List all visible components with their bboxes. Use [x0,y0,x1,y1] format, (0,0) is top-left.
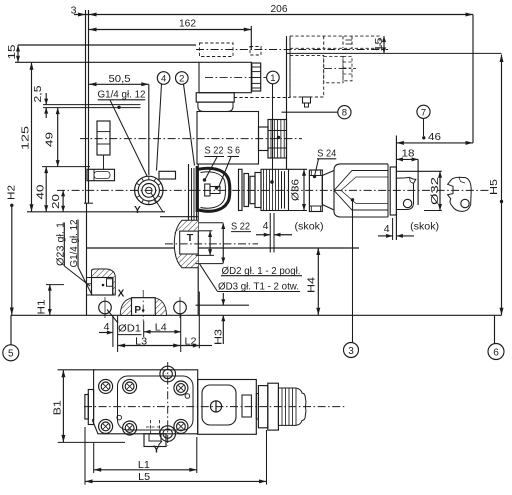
svg-text:L3: L3 [135,335,147,347]
bolt F [174,419,188,433]
depth dimension inner [208,231,212,255]
svg-text:P: P [134,305,141,316]
adjust screw S6 end [205,184,220,196]
svg-text:H2: H2 [6,185,18,200]
label diameter-23 gl.1 with leader [56,222,91,286]
reference line y=263.6 [196,263,224,265]
svg-text:S 24: S 24 [317,148,336,160]
dashed alt connector position [200,43,262,57]
dimension diameter 36 [289,169,308,210]
long horizontal reference line y=53.4 [287,52,502,54]
depth dimension outer [221,223,225,264]
connector block [199,62,266,92]
bottom view horizontal centerline [84,406,345,408]
label T [187,232,194,244]
label P [134,305,144,316]
svg-text:L1: L1 [138,459,150,471]
dimension 46 [396,131,473,145]
svg-text:3: 3 [71,4,77,16]
bottom view inner rounded body [118,376,194,430]
dimension L4 [144,314,181,352]
svg-text:18: 18 [402,147,415,159]
svg-text:ØD3 gł. T1 - 2 otw.: ØD3 gł. T1 - 2 otw. [218,281,299,293]
reference lines 2.5 with dot [43,105,141,109]
bolt hole circle right [174,297,187,318]
svg-text:162: 162 [179,18,196,30]
Y port tab bottom view [144,420,166,447]
dimension H1 [36,285,64,315]
dimension diameter 32 [396,171,442,210]
dimension 4 lower-left [99,315,118,352]
balloon 3 [344,343,359,358]
svg-text:S 22: S 22 [205,145,224,157]
balloon 2 with leader [176,72,195,166]
svg-text:ØD1: ØD1 [118,323,141,335]
svg-text:50,5: 50,5 [109,73,131,85]
dimension L5 [85,427,267,485]
alt connector axis centerline [196,49,388,51]
svg-text:15: 15 [6,44,18,59]
svg-text:T: T [187,232,194,244]
separate clevis lug [448,177,472,211]
dimension 20 [50,190,65,211]
svg-text:S 6: S 6 [227,145,240,157]
dimension 4 (skok) right [378,218,439,240]
dimension 15 top-right [373,36,386,53]
dimension 40 [35,167,49,212]
dimension 49 [44,108,60,167]
svg-text:(skok): (skok) [295,221,324,233]
label Y [134,205,141,216]
body right interface plate stack [189,164,199,315]
bracket assembly top right (dashed alt position) [290,36,380,48]
pole tube [259,127,269,151]
svg-text:3: 3 [348,346,354,357]
bracket column dashed block [290,55,356,97]
svg-text:L5: L5 [138,471,150,483]
dimension 2,5 [32,85,48,118]
extension line x=396.4 [395,136,397,241]
label S 22 with leader [203,145,224,182]
knob flange [268,383,279,430]
svg-text:46: 46 [428,131,441,143]
balloon 1 with leader [267,71,280,184]
svg-text:H5: H5 [488,179,500,195]
knurled cap on tube [268,120,287,159]
dimension L1 [94,437,197,473]
bolt C [174,381,188,395]
dimension 18 [396,147,418,205]
label H2 with leader to balloon 5 [6,185,18,345]
main axis centerline [57,189,490,191]
extension/centre line of knob [148,84,150,175]
dimension 15 left [6,44,20,62]
reference line y=166.6 [42,166,90,168]
svg-text:15: 15 [373,37,385,51]
svg-text:5: 5 [8,349,14,360]
T port boss section (dome pointing left) [174,220,198,267]
svg-text:49: 49 [44,132,56,147]
balloon 6 with stem [488,315,504,359]
coil end window [242,395,251,417]
hex S24 [309,170,322,212]
dimension text 206 [271,3,288,15]
dimension B1 [51,370,125,443]
valve body left edge (double line) [86,10,89,203]
hex collar [255,173,261,208]
extension lines for dim 15 [15,45,196,62]
H3 reference line [196,304,250,306]
label S 6 with leader [219,145,241,188]
svg-text:L4: L4 [155,321,167,333]
svg-text:4: 4 [161,74,166,85]
dimension H5 [488,55,503,316]
svg-text:206: 206 [271,3,288,15]
dimension 50,5 [89,73,149,86]
depth reference lines upper [198,223,223,231]
extension line right for 206/46 [472,15,474,143]
plug boss left [87,169,115,180]
hand knob Y (concentric circles) [135,176,163,212]
svg-text:B1: B1 [51,400,63,415]
svg-text:2,5: 2,5 [32,85,44,102]
svg-text:Y: Y [134,205,141,216]
label X [118,289,125,300]
connector square with screw [202,385,236,425]
dimension L2 [181,292,212,349]
bracket mounting tab [303,97,311,107]
hidden edge of bracket over coil [234,97,290,99]
knurled ring diameter 36 [261,169,289,210]
boss above knob [159,171,176,179]
svg-text:7: 7 [421,107,426,118]
label S 24 with leader [313,148,337,179]
actuator body [322,164,396,217]
bottom view vertical centerline [167,362,169,446]
dimension H4 [305,248,320,316]
label S 22 lower [231,221,251,233]
bolt D [99,419,113,433]
svg-text:Ø32: Ø32 [429,177,441,205]
svg-text:20: 20 [50,194,62,209]
svg-text:L2: L2 [185,335,197,347]
label OD3 with leader [200,264,301,293]
bracket left edge lines [287,36,291,169]
T section centre dash-dot line [165,243,258,245]
balloon 5 [3,345,19,361]
balloon 4 with leader [157,72,170,171]
left end cap bottom view [85,390,94,425]
dimension L3 [118,335,181,347]
svg-text:H4: H4 [305,277,317,293]
bolt B [123,379,137,393]
balloon 8 with leader [282,106,352,119]
P port centerline [142,290,144,321]
dimension text 3 [71,4,77,16]
balloon 7 with leader [417,105,430,139]
dimension 125 [20,62,34,212]
big bolt top [160,366,176,382]
coil body [197,112,259,165]
label Y bottom view [153,441,162,456]
svg-text:125: 125 [20,126,32,150]
clevis lug on actuator [397,177,416,209]
valve body outline [27,62,359,315]
svg-text:G1/4 gł. 12: G1/4 gł. 12 [98,89,146,101]
svg-text:2: 2 [179,74,184,85]
svg-text:4: 4 [384,223,390,235]
svg-text:S 22: S 22 [231,221,250,233]
side port block G1/4 [97,121,110,169]
X port boss section [87,269,116,295]
dimension 4 (skok) left [256,213,324,253]
small pin holes [117,394,190,420]
svg-text:X: X [118,289,125,300]
bolt E [123,421,137,435]
label G1/4 gl.12 (top) with leader [98,89,148,177]
label OD1 [118,323,142,335]
svg-text:Ø36: Ø36 [289,179,301,201]
leader line to balloon 3 [352,202,354,343]
leader to OD1 [107,310,118,324]
svg-text:1: 1 [270,73,275,84]
svg-text:4: 4 [104,321,110,333]
svg-text:(skok): (skok) [410,221,439,233]
svg-text:4: 4 [263,220,269,232]
reference line y=255.4 [196,254,214,256]
dimension H3 [213,293,226,345]
centerline pilot axis y=138.6 [80,138,302,140]
label OD2 [221,265,302,277]
svg-text:H1: H1 [36,299,48,314]
adapter block [258,386,267,428]
P port boss section [120,298,166,316]
manual override cap (thick outline) [197,166,230,212]
knurled knob bottom view [278,388,306,425]
connector flange [196,93,234,102]
svg-text:6: 6 [493,347,499,358]
svg-text:40: 40 [35,184,47,199]
dimension 162 [89,18,251,50]
svg-text:8: 8 [342,108,347,119]
dimension 3 and 206 line [74,13,473,17]
connector lower rounded block [198,102,233,111]
washer stack [239,169,256,210]
connector housing bottom view [198,380,257,435]
big bolt bottom [160,426,176,442]
label G1/4 gl.12 (rotated) with leader [69,219,92,295]
bolt A [99,379,113,393]
svg-text:Y: Y [153,445,160,456]
section baseline [11,314,502,316]
cable gland rings [252,63,261,91]
bottom view plate outline [93,370,198,434]
collar ring [256,394,258,420]
bolt hole circle left [99,297,112,318]
svg-text:H3: H3 [213,329,225,345]
